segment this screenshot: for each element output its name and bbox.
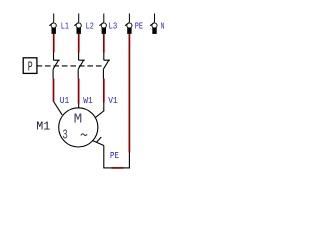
- svg-text:L3: L3: [109, 21, 118, 32]
- svg-text:M1: M1: [36, 120, 50, 134]
- svg-text:W1: W1: [83, 95, 93, 106]
- svg-text:PE: PE: [135, 21, 144, 32]
- svg-text:3: 3: [62, 127, 67, 143]
- svg-text:L1: L1: [61, 21, 69, 32]
- svg-text:U1: U1: [60, 95, 70, 106]
- svg-text:L2: L2: [86, 21, 95, 32]
- svg-text:M: M: [74, 112, 83, 127]
- svg-text:P: P: [28, 59, 33, 75]
- svg-text:V1: V1: [108, 95, 118, 106]
- svg-text:N: N: [161, 21, 165, 32]
- svg-text:PE: PE: [110, 150, 119, 161]
